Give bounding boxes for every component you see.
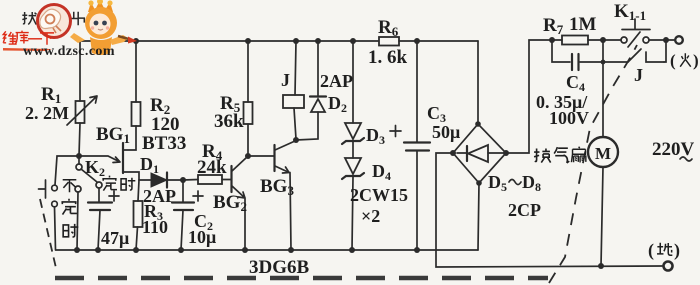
transistor BG1 bar xyxy=(122,143,124,173)
node G emitter junction xyxy=(76,153,82,159)
svg-text:220V: 220V xyxy=(652,139,695,160)
resistor R7 xyxy=(562,36,588,45)
node dot BG3 emitter xyxy=(288,247,294,253)
svg-text:3DG6B: 3DG6B xyxy=(249,257,310,278)
resistor R4 xyxy=(198,175,222,184)
svg-text:2AP: 2AP xyxy=(320,71,353,91)
switch K2 contact timed xyxy=(96,182,102,188)
node J junction R5 BG3 xyxy=(245,153,251,159)
node dot R3 xyxy=(133,247,139,253)
resistor R1 xyxy=(67,96,97,125)
node M junction R7 right xyxy=(600,37,606,43)
label D5-D8 xyxy=(488,172,541,194)
wire pull switch to ground rail xyxy=(55,207,56,250)
wire R3 top xyxy=(138,180,139,201)
svg-text:1M: 1M xyxy=(569,14,597,35)
wire K1-1 to live terminal xyxy=(649,39,674,41)
node A top-left corner junction xyxy=(133,38,139,44)
node dot zener xyxy=(349,247,355,253)
wire D2 top xyxy=(317,41,319,96)
diode D1 xyxy=(151,173,167,188)
wire relay J column top xyxy=(295,41,296,95)
svg-text:BT33: BT33 xyxy=(142,133,186,154)
pull switch PB contacts xyxy=(39,180,58,207)
wire R2 top xyxy=(135,41,137,102)
node dot BG2 emitter xyxy=(242,247,248,253)
wire untimed column xyxy=(77,192,78,250)
svg-text:J: J xyxy=(281,70,290,90)
wire C1 to ground rail xyxy=(98,210,100,250)
node N junction xyxy=(663,37,669,43)
wire D1 to node I xyxy=(167,179,183,181)
relay contact J blade xyxy=(628,49,664,62)
capacitor C3 xyxy=(390,126,430,151)
mechanical link dashed bottom border xyxy=(55,276,548,281)
relay coil J xyxy=(283,95,304,108)
svg-text:(: ( xyxy=(648,240,654,261)
label 220V xyxy=(652,139,695,161)
svg-text:120: 120 xyxy=(151,114,180,135)
transistor BG3 bar xyxy=(273,145,275,171)
wire R1 top column xyxy=(79,41,81,101)
wire to pull switch xyxy=(55,156,79,185)
wire bridge left to neutral xyxy=(436,153,662,267)
capacitor C1 47u xyxy=(88,191,119,210)
wire motor bottom column xyxy=(601,167,603,266)
node L junction R7 left xyxy=(549,37,555,43)
diode D2 xyxy=(310,97,326,113)
wire BG3 emitter xyxy=(275,166,291,250)
wire relay J bottom xyxy=(294,108,296,139)
node B junction R5 xyxy=(245,38,251,44)
svg-text:M: M xyxy=(595,144,611,163)
node D junction D2 xyxy=(315,38,321,44)
wire R1 bottom xyxy=(79,123,80,156)
node dot C4 junction xyxy=(601,60,606,65)
svg-text:110: 110 xyxy=(142,217,168,237)
zener diode D3 xyxy=(342,123,364,144)
wire emitter BG1 xyxy=(79,156,120,163)
wire top rail left section xyxy=(80,40,378,42)
switch K2 contact untimed xyxy=(75,186,81,192)
wire timed contact to C1 xyxy=(98,188,100,202)
svg-text:1. 6k: 1. 6k xyxy=(368,47,408,68)
wire bridge right to top right rail xyxy=(506,40,562,153)
wire C2 top xyxy=(182,180,184,202)
node I junction xyxy=(180,177,186,183)
wire D3 to D4 xyxy=(352,142,354,158)
capacitor C2 xyxy=(172,191,203,210)
motor M xyxy=(588,137,618,167)
node F junction C3 xyxy=(414,38,420,44)
watermark logo dzsc xyxy=(3,0,137,59)
svg-text:100V: 100V xyxy=(549,108,589,128)
label timed 定时 xyxy=(102,176,135,191)
mechanical link dashed diagonal to switches xyxy=(549,45,637,283)
wire J contact to node N xyxy=(664,40,666,62)
svg-text:): ) xyxy=(693,51,699,70)
svg-text:50μ: 50μ xyxy=(432,122,460,142)
wire BG3 collector xyxy=(275,141,295,150)
label live 火 xyxy=(670,51,699,70)
ground terminal xyxy=(664,262,673,271)
svg-text:×2: ×2 xyxy=(361,206,380,226)
svg-text:2CW15: 2CW15 xyxy=(350,185,408,205)
resistor R6 xyxy=(379,37,399,46)
wire C2 to ground rail xyxy=(181,210,183,250)
svg-text:): ) xyxy=(674,240,680,261)
svg-text:www.dzsc.com: www.dzsc.com xyxy=(23,44,115,59)
svg-text:36k: 36k xyxy=(214,111,244,132)
svg-text:24k: 24k xyxy=(197,157,227,178)
resistor R2 xyxy=(132,102,141,126)
node dot C2 xyxy=(178,247,184,253)
switch K2 pole xyxy=(76,159,82,170)
wire ground rail xyxy=(56,249,478,251)
wire node I to R4 xyxy=(183,179,198,182)
label untimed 不定时 vertical xyxy=(61,180,78,237)
svg-text:2. 2M: 2. 2M xyxy=(25,103,69,123)
wire top rail right of R6 xyxy=(399,40,478,42)
bridge rectifier D5-D8 diamond xyxy=(450,121,509,186)
svg-text:47μ: 47μ xyxy=(101,228,129,248)
zener diode D4 xyxy=(342,158,364,179)
wire node K to D2 xyxy=(296,112,318,140)
node dot motor bottom xyxy=(598,263,604,269)
wire zener column top xyxy=(352,41,354,123)
switch K2 blade xyxy=(81,169,97,182)
switch K1-1 xyxy=(621,19,650,47)
node K junction collector BG3 xyxy=(293,137,299,143)
wire R7 to K1-1 xyxy=(588,39,621,41)
svg-text:J: J xyxy=(634,65,643,85)
wire R5 top column xyxy=(247,41,249,102)
wire BG1 base2 to R2 xyxy=(123,126,136,150)
wire BG1 base1 down xyxy=(123,172,139,180)
resistor R3 xyxy=(134,201,143,227)
live terminal xyxy=(675,36,683,44)
node dot untimed xyxy=(74,247,80,253)
wire R4 to BG2 base xyxy=(222,179,231,181)
wire bridge bottom to ground rail xyxy=(478,183,479,250)
wire BG2 collector xyxy=(232,157,247,171)
wire R3 to ground rail xyxy=(136,227,138,250)
wire bridge top column xyxy=(477,41,479,124)
svg-text:(: ( xyxy=(670,51,676,70)
wire BG2 emitter xyxy=(232,186,245,250)
svg-text:2CP: 2CP xyxy=(508,200,541,220)
wire C3 to ground rail xyxy=(416,151,418,250)
transistor BG2 bar xyxy=(230,166,232,192)
resistor R5 xyxy=(244,102,253,124)
wire D4 to ground rail xyxy=(352,177,353,250)
svg-text:10μ: 10μ xyxy=(188,227,216,247)
mechanical link dashed left xyxy=(40,199,56,268)
node dot C1 xyxy=(95,247,101,253)
wire R5 bottom xyxy=(247,124,249,153)
wire C3 column top xyxy=(416,41,418,142)
node E junction zener branch xyxy=(350,38,356,44)
label ground 地 xyxy=(648,240,680,261)
capacitor C4 branch xyxy=(552,40,628,70)
node C junction relay J xyxy=(293,38,299,44)
node dot C3 xyxy=(414,247,420,253)
wire base BG3 xyxy=(248,155,274,157)
wire motor top column xyxy=(602,40,604,137)
label fan 换气扇 xyxy=(534,147,586,163)
wire node H to D1 xyxy=(139,179,151,181)
